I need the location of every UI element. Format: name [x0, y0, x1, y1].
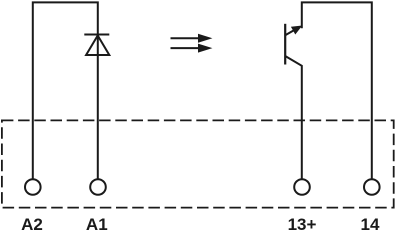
transistor Q1 upper lead with arrow [285, 26, 302, 36]
svg-text:14: 14 [361, 215, 380, 232]
diode (input LED) triangle [86, 36, 109, 56]
svg-text:A1: A1 [86, 215, 108, 232]
wire: output loop (collector vertical, top horizontal, 14 vertical) [302, 2, 372, 178]
terminal 14 circle [364, 179, 380, 195]
relay housing dashed outline [2, 120, 394, 207]
terminal A1 circle [90, 179, 106, 195]
diode (input LED) cathode bar [84, 34, 109, 36]
optocoupler light arrow (lower) [171, 44, 213, 53]
transistor Q1 emitter lead and wire down to 13+ [285, 56, 302, 179]
svg-text:A2: A2 [21, 215, 43, 232]
optocoupler light arrow (upper) [171, 34, 213, 43]
transistor Q1 base bar [284, 24, 286, 65]
terminal A2 circle [25, 179, 41, 195]
wire: left input loop (A2 vertical, top horizontal, A1 vertical) [33, 2, 98, 178]
svg-text:13+: 13+ [288, 215, 317, 232]
terminal 13+ circle [294, 179, 310, 195]
